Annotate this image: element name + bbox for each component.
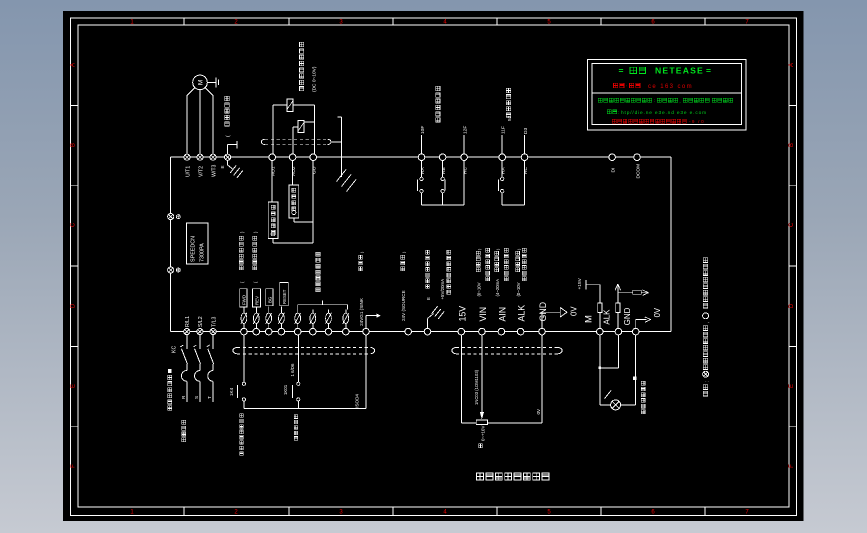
terminal 15V — [458, 328, 465, 335]
shield oval cable3 — [456, 346, 558, 348]
svg-text:-9 r0: -9 r0 — [689, 119, 705, 124]
svg-text:GND: GND — [538, 302, 548, 322]
svg-text:0V: 0V — [536, 408, 541, 415]
contact RB — [442, 161, 444, 178]
wire RC2 down — [524, 161, 526, 206]
terminal X4 — [343, 328, 350, 335]
svg-text:10F: 10F — [420, 126, 426, 134]
braking unit RB2 — [298, 121, 304, 133]
terminal X1 — [294, 328, 301, 335]
svg-text:RC: RC — [462, 167, 468, 174]
svg-text:C: C — [70, 222, 76, 227]
terminal VIN — [479, 328, 486, 335]
svg-text:htp//die.ne e3e.nd e3e e.com: htp//die.ne e3e.nd e3e e.com — [621, 110, 707, 116]
svg-text:RC: RC — [523, 167, 529, 174]
svg-text:,: , — [679, 98, 680, 103]
contact 1K01 — [297, 382, 300, 385]
wire X1 down — [297, 335, 299, 382]
svg-text:0~+10V: 0~+10V — [480, 426, 485, 441]
function box FWD — [240, 289, 247, 307]
svg-text:BG: BG — [268, 296, 273, 303]
wire R2 up arrow — [617, 284, 619, 303]
potentiometer RP — [476, 420, 487, 425]
resistor R2 — [616, 303, 620, 313]
indicator lamp HL — [611, 400, 621, 410]
svg-text:NETEASE: NETEASE — [655, 65, 704, 75]
wire R1 to +15V — [599, 285, 601, 303]
wire lamp to GND — [621, 404, 636, 406]
terminal W/T3 — [210, 154, 216, 160]
wire 1K4 down — [243, 401, 245, 409]
shield oval cable1 — [265, 138, 327, 140]
svg-text:S: S — [194, 396, 199, 399]
terminal X3 — [325, 328, 332, 335]
svg-text:DCOM: DCOM — [635, 164, 641, 179]
wire RC down — [463, 161, 465, 206]
svg-text:ce 163 com: ce 163 com — [648, 84, 693, 90]
contact 1K4 — [242, 382, 245, 385]
VFD left edge — [170, 157, 172, 331]
wire freqmeter box to GO — [293, 218, 295, 222]
svg-text:·: · — [626, 84, 628, 90]
svg-text:11F: 11F — [501, 126, 507, 134]
tag 11F — [501, 135, 503, 154]
svg-text:E: E — [220, 165, 225, 168]
svg-text:D3: D3 — [523, 128, 529, 134]
braking wire mid — [292, 127, 294, 154]
motor ground stub — [207, 81, 216, 83]
terminal RST — [278, 328, 285, 335]
screw terminal symbols — [241, 313, 247, 323]
E terminal PE link — [227, 145, 229, 154]
tag D3 — [524, 135, 526, 154]
svg-text::: : — [654, 98, 655, 103]
svg-text:0V: 0V — [570, 306, 579, 316]
terminal RB — [439, 154, 446, 161]
svg-text:24V (SOURCE: 24V (SOURCE — [401, 290, 406, 321]
terminal RC — [461, 154, 468, 161]
svg-text:T: T — [207, 396, 212, 399]
terminal FWD — [241, 328, 248, 335]
terminal E — [225, 154, 231, 160]
svg-text:D: D — [789, 303, 795, 308]
earth electrode line — [340, 117, 342, 177]
svg-text:GO: GO — [312, 166, 318, 174]
terminal GO — [310, 154, 317, 161]
E2 shield earth — [427, 319, 429, 329]
label aux speed — [504, 248, 508, 252]
VFD top bus — [171, 156, 671, 158]
svg-text:=: = — [706, 65, 711, 75]
label fault alarm output — [436, 86, 440, 90]
svg-text:D: D — [70, 303, 76, 308]
wire branch right — [618, 292, 633, 294]
wire voltmeter box to GO — [272, 239, 274, 243]
svg-text:12F: 12F — [462, 126, 468, 134]
VFD bottom bus — [171, 331, 671, 333]
svg-text:=: = — [619, 65, 624, 75]
wire M down — [599, 335, 601, 368]
terminal RC2 — [521, 154, 528, 161]
label multi-function input — [316, 252, 320, 256]
contact RA — [421, 161, 423, 178]
svg-text:SPEEDCN: SPEEDCN — [191, 236, 197, 262]
svg-text:(DC 0~10V): (DC 0~10V) — [312, 66, 318, 92]
svg-text::: : — [704, 381, 710, 382]
wires boxes to bus — [243, 307, 245, 314]
watermark line2 red — [613, 83, 617, 87]
motor M1 — [193, 75, 208, 90]
svg-text:VIN: VIN — [478, 307, 488, 322]
resistor R1 — [598, 303, 602, 313]
terminal AIN — [498, 328, 505, 335]
svg-text:M: M — [584, 315, 595, 323]
svg-text:0V: 0V — [653, 307, 662, 317]
watermark inner box — [592, 64, 742, 125]
terminal ALK — [517, 328, 524, 335]
wire FWD down — [243, 335, 245, 382]
drawing title — [477, 473, 484, 480]
svg-text:W/T3: W/T3 — [211, 164, 217, 177]
svg-text:7300PA: 7300PA — [200, 243, 206, 262]
braking wire left — [272, 105, 274, 154]
svg-text:AO2: AO2 — [291, 166, 297, 176]
resistor R3 — [633, 290, 642, 294]
terminal AO2 — [289, 154, 296, 161]
wire GND to 0V arrow — [541, 312, 543, 328]
terminal REV — [253, 328, 260, 335]
svg-text:+15V: +15V — [577, 277, 583, 289]
bracket multi-function input — [298, 304, 348, 306]
+15V rail — [586, 284, 600, 286]
terminal X2 — [310, 328, 317, 335]
watermark outer box — [587, 59, 746, 130]
wire motor to U/T1 — [187, 88, 195, 154]
PE terminal 2 on left edge — [168, 267, 174, 273]
label braking resistor option — [300, 42, 304, 46]
terminal DI — [609, 154, 616, 161]
breaker QF poles — [186, 335, 188, 349]
braking wire unit-right — [304, 121, 314, 123]
svg-text:ALK: ALK — [603, 309, 612, 325]
wire GND2 0V arrow — [635, 320, 637, 329]
watermark line5 red — [612, 119, 616, 123]
wire GO down — [312, 161, 314, 244]
border zone ticks top/bottom — [183, 18, 185, 25]
svg-text:AO1: AO1 — [271, 166, 277, 176]
svg-text:15V: 15V — [457, 306, 467, 322]
wire VIN wiper — [481, 335, 483, 412]
open arrow 0V out — [560, 308, 567, 318]
svg-text:FWD: FWD — [242, 295, 247, 305]
border zone ticks left/right — [70, 104, 78, 106]
function box REV — [252, 289, 260, 307]
label no-fuse breaker — [168, 369, 172, 373]
terminal RA2 — [499, 154, 506, 161]
svg-text:ALK: ALK — [517, 305, 527, 322]
terminal U/T1 — [184, 154, 190, 160]
VFD right edge — [670, 157, 672, 331]
svg-text:1NC03 (1OM1103): 1NC03 (1OM1103) — [474, 369, 479, 405]
svg-text:R/L1: R/L1 — [185, 316, 191, 327]
shield oval cable2 — [237, 346, 371, 348]
wire 1K01 down — [297, 401, 299, 409]
voltmeter output box — [268, 202, 278, 239]
tag 10F — [421, 135, 423, 154]
svg-text:B: B — [789, 143, 795, 147]
terminal ALK2 — [615, 328, 622, 335]
freqmeter output box — [289, 185, 299, 218]
terminal T/L3 — [210, 329, 216, 335]
svg-text:E: E — [70, 384, 76, 388]
contact RA2 — [501, 161, 503, 178]
svg-text:V/T2: V/T2 — [198, 166, 204, 177]
label three-phase source — [182, 420, 186, 424]
terminal 24VG1 — [363, 328, 370, 335]
lamp switch slash — [605, 391, 612, 399]
svg-text:E: E — [426, 297, 431, 300]
svg-text:RA: RA — [501, 167, 507, 174]
wire 15V to pot — [461, 422, 476, 424]
wire to lamp — [599, 368, 601, 405]
label panel run indicator — [641, 381, 645, 385]
wire 0V up — [541, 335, 543, 423]
PE terminal 1 on left edge — [168, 214, 174, 220]
svg-text:AIN: AIN — [497, 307, 507, 322]
terminal GND2 — [632, 328, 639, 335]
svg-text:GND: GND — [623, 307, 632, 325]
terminal M — [597, 328, 604, 335]
svg-text:(0~10V: (0~10V — [516, 282, 521, 296]
svg-text:B: B — [70, 143, 76, 147]
E terminal earth — [227, 160, 229, 165]
svg-text::: : — [618, 110, 619, 115]
label normally closed — [294, 415, 298, 419]
svg-text:REV: REV — [254, 296, 259, 305]
svg-text:(4~20mA: (4~20mA — [495, 279, 500, 297]
svg-text:F: F — [70, 464, 76, 468]
svg-text:52: 52 — [507, 115, 513, 121]
terminal 24V — [405, 328, 412, 335]
svg-text:A: A — [70, 63, 76, 67]
terminal AO1 — [269, 154, 276, 161]
wire AO1 to voltmeter box — [271, 161, 273, 203]
terminal S/L2 — [197, 329, 203, 335]
terminal V/T2 — [197, 154, 203, 160]
terminal RA — [418, 154, 425, 161]
wire R1 to M — [599, 313, 601, 329]
svg-text:ISOD4: ISOD4 — [354, 394, 359, 408]
svg-text:RB: RB — [441, 167, 447, 174]
24VG1 arrow — [365, 316, 367, 329]
terminal COM — [634, 154, 641, 161]
svg-text:RESET: RESET — [282, 289, 287, 304]
svg-text:1K4: 1K4 — [229, 387, 234, 396]
inner border frame — [78, 25, 789, 507]
svg-text:+5V/20mA: +5V/20mA — [440, 279, 445, 300]
wire motor to V/T2 — [199, 90, 201, 154]
wires multi terminals — [297, 310, 299, 313]
label emergency interlock closed — [240, 414, 244, 418]
watermark line4 green — [607, 110, 611, 114]
svg-text:E: E — [789, 384, 795, 388]
label freq power — [447, 250, 451, 254]
terminal E2 — [424, 328, 431, 335]
braking wire right — [313, 105, 315, 154]
terminal BG — [265, 328, 272, 335]
function box BG — [266, 289, 273, 306]
braking resistor RB1 — [287, 99, 293, 112]
watermark line3 green — [598, 98, 602, 102]
outer border frame — [70, 18, 796, 516]
svg-text:T/L3: T/L3 — [211, 317, 217, 327]
note main/control terminal legend — [703, 385, 708, 390]
wire relay1 bottom — [422, 204, 465, 206]
svg-text:1 6/D6: 1 6/D6 — [290, 363, 295, 376]
svg-text:S/L2: S/L2 — [198, 316, 204, 327]
terminal R/L1 — [184, 329, 190, 335]
svg-text:U/T1: U/T1 — [185, 166, 191, 177]
earth electrode hatch — [337, 170, 347, 182]
wire R2 to ALK — [617, 313, 619, 329]
svg-text:(0~10V: (0~10V — [476, 282, 481, 296]
wire relay2 bottom — [502, 204, 524, 206]
wire shield to earth — [332, 141, 341, 143]
wire 15V down — [460, 335, 462, 423]
braking wire top — [293, 104, 314, 106]
wire common to 24VG1 — [365, 335, 367, 409]
svg-text:C: C — [789, 222, 795, 227]
label main speed — [486, 248, 490, 252]
watermark divider — [592, 92, 742, 94]
svg-text:M: M — [198, 80, 205, 85]
wire link M-ALK — [600, 367, 619, 369]
svg-text:,: , — [704, 322, 710, 323]
label multi speed — [522, 248, 526, 252]
svg-text:RA: RA — [420, 167, 426, 174]
svg-text:DI: DI — [610, 168, 616, 173]
svg-text:A: A — [789, 63, 795, 67]
nameplate box SPEEDCN 7300PA — [187, 223, 208, 264]
wire motor to W/T3 — [205, 88, 213, 154]
wire pot to 0V — [488, 422, 542, 424]
svg-text:KC: KC — [172, 346, 178, 353]
wire common bottom — [244, 408, 366, 410]
svg-text:1K01: 1K01 — [283, 384, 288, 395]
tag 12F — [463, 135, 465, 154]
function box RST — [280, 283, 289, 306]
wire AO2 to freqmeter box — [292, 161, 294, 186]
svg-text:24VG1 (SINK: 24VG1 (SINK — [359, 297, 364, 326]
arrow out right — [641, 292, 648, 294]
svg-text:F: F — [789, 464, 795, 468]
junction dot — [598, 366, 601, 369]
terminal GND — [539, 328, 546, 335]
